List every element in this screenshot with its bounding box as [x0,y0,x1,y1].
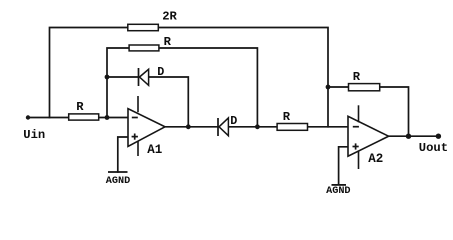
svg-text:D: D [157,65,164,79]
svg-text:AGND: AGND [106,176,130,187]
ground AGND symbol of A2 (bar) [332,184,347,186]
wire A1 non-inverting input to AGND [118,137,128,172]
svg-text:R: R [164,35,172,49]
op-amp A1 bottom power stub [137,141,139,156]
diode D1 cathode bar [138,68,140,86]
svg-text:Uout: Uout [419,141,448,155]
op-amp A1 non-inverting pin plus sign [132,134,138,140]
svg-text:2R: 2R [162,10,177,24]
op-amp A2 top power stub [358,105,360,122]
op-amp A1 top power stub [137,96,139,112]
wire R feedback loop of A1 (vertical at node, horizontal, right vertical down) [107,48,257,127]
op-amp A2 triangle [348,116,389,156]
node junction dot A1 output (x188 y126.8) [186,124,191,129]
diode D2 cathode bar [217,118,219,136]
resistor R (A1 feedback) [129,45,159,51]
node Uout output terminal dot [436,134,441,139]
svg-text:AGND: AGND [326,186,350,197]
node junction dot 2R vertical / A2 feedback (x328 y87) [326,85,331,90]
op-amp A1 inverting pin minus sign [132,117,138,119]
resistor 2R [128,24,159,30]
op-amp A2 non-inverting pin plus sign [353,143,359,149]
node junction dot input/feedback (x107 y117.5) [105,115,110,120]
wire 2R feedback loop (left vertical, top horizontal, right vertical) [50,28,329,127]
wire A2 feedback R from 2R vertical to output [328,87,409,136]
node junction dot diode branch (x107 y77) [105,75,110,80]
wire A2 output to Uout terminal [389,135,439,137]
resistor R (middle, to A2 input) [277,124,307,131]
diode D2 triangle [219,118,228,136]
ground AGND symbol of A1 (bar) [108,171,128,173]
wire diode D1 branch from node to A1 output [107,77,188,127]
wire A2 non-inverting input to AGND [339,147,348,185]
node junction dot A2 output feedback (x408.5 y136.2) [406,134,411,139]
svg-text:A2: A2 [368,152,383,166]
op-amp A2 inverting pin minus sign [353,126,359,128]
op-amp A2 bottom power stub [358,151,360,170]
wire A1 output through D2 and R to A2 inverting input [165,126,348,128]
diode D1 triangle [140,69,149,85]
svg-text:R: R [283,110,291,124]
resistor R (input) [69,114,99,120]
node junction dot R feedback / middle wire (x257 y126.8) [255,124,260,129]
svg-text:Uin: Uin [23,128,45,142]
svg-text:R: R [76,100,84,114]
wire input Uin to A1 inverting input [28,117,128,119]
svg-text:A1: A1 [147,143,162,157]
op-amp A1 triangle [128,109,165,147]
resistor R (A2 feedback) [349,84,380,91]
node Uin input terminal dot [26,115,30,119]
svg-text:D: D [230,114,237,128]
svg-text:R: R [353,70,361,84]
